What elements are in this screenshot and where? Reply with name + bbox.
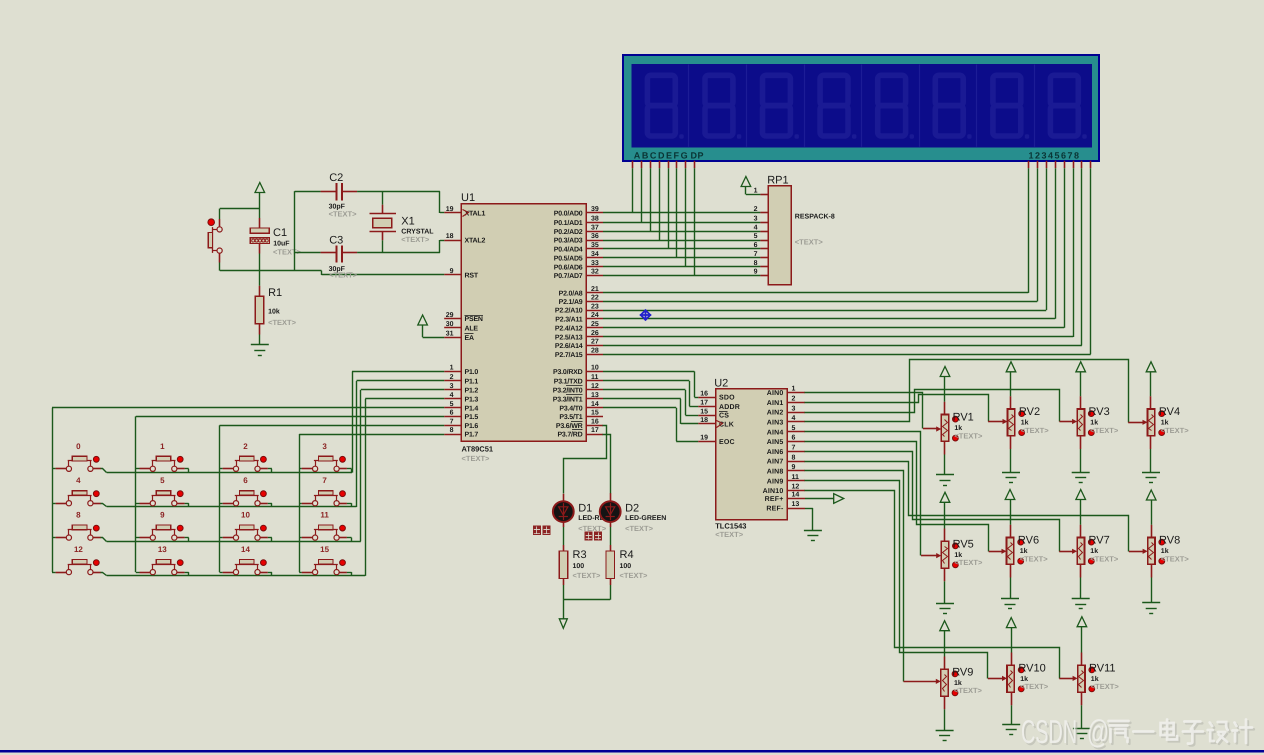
svg-text:8: 8 <box>450 427 454 434</box>
svg-text:<TEXT>: <TEXT> <box>1090 426 1119 435</box>
svg-text:5: 5 <box>792 425 796 432</box>
svg-text:<TEXT>: <TEXT> <box>573 571 602 580</box>
svg-text:<TEXT>: <TEXT> <box>462 454 491 463</box>
svg-text:6: 6 <box>450 410 454 417</box>
svg-text:14: 14 <box>792 492 800 499</box>
svg-text:9: 9 <box>792 464 796 471</box>
svg-text:<TEXT>: <TEXT> <box>715 530 744 539</box>
svg-text:24: 24 <box>591 312 599 319</box>
svg-text:P3.7/RD: P3.7/RD <box>557 431 582 439</box>
svg-text:17: 17 <box>591 427 599 434</box>
svg-text:P1.7: P1.7 <box>465 432 479 439</box>
svg-text:AIN2: AIN2 <box>767 410 784 417</box>
svg-text:C1: C1 <box>273 227 287 239</box>
svg-text:13: 13 <box>792 501 800 508</box>
svg-text:SDO: SDO <box>719 395 735 402</box>
svg-text:P3.3/INT1: P3.3/INT1 <box>553 396 583 404</box>
svg-text:16: 16 <box>591 419 599 426</box>
svg-text:26: 26 <box>591 330 599 337</box>
svg-text:RV2: RV2 <box>1019 406 1040 418</box>
svg-text:RV5: RV5 <box>953 539 974 551</box>
svg-text:AT89C51: AT89C51 <box>462 445 494 454</box>
svg-text:C2: C2 <box>329 172 343 184</box>
svg-text:P0.2/AD2: P0.2/AD2 <box>554 228 583 236</box>
svg-text:12: 12 <box>74 545 83 554</box>
svg-text:4: 4 <box>450 392 454 399</box>
svg-text:P0.6/AD6: P0.6/AD6 <box>554 263 583 271</box>
svg-text:31: 31 <box>446 330 454 337</box>
svg-text:13: 13 <box>591 392 599 399</box>
svg-text:7: 7 <box>322 476 327 485</box>
svg-text:AIN3: AIN3 <box>767 420 784 427</box>
svg-text:AIN10: AIN10 <box>763 488 784 495</box>
svg-text:8: 8 <box>792 454 796 461</box>
svg-text:EA: EA <box>465 335 474 342</box>
svg-text:3: 3 <box>792 405 796 412</box>
svg-text:P2.5/A13: P2.5/A13 <box>555 334 583 342</box>
svg-text:1: 1 <box>754 188 758 195</box>
svg-text:RESPACK-8: RESPACK-8 <box>795 213 835 220</box>
svg-text:36: 36 <box>591 233 599 240</box>
svg-text:<TEXT>: <TEXT> <box>625 524 654 533</box>
svg-text:R3: R3 <box>573 549 587 561</box>
svg-text:25: 25 <box>591 321 599 328</box>
svg-text:6: 6 <box>243 476 248 485</box>
svg-text:AIN8: AIN8 <box>767 469 784 476</box>
svg-text:9: 9 <box>754 269 758 276</box>
svg-text:P0.7/AD7: P0.7/AD7 <box>554 272 583 280</box>
svg-text:<TEXT>: <TEXT> <box>795 238 824 247</box>
svg-text:6: 6 <box>754 242 758 249</box>
svg-text:<TEXT>: <TEXT> <box>329 210 358 219</box>
svg-text:15: 15 <box>320 545 329 554</box>
svg-text:AIN1: AIN1 <box>767 400 784 407</box>
svg-text:23: 23 <box>591 303 599 310</box>
svg-text:7: 7 <box>754 251 758 258</box>
svg-text:P3.1/TXD: P3.1/TXD <box>554 378 583 386</box>
svg-text:2: 2 <box>792 396 796 403</box>
svg-text:AIN9: AIN9 <box>767 478 784 485</box>
svg-text:100: 100 <box>620 563 632 570</box>
svg-text:U1: U1 <box>461 192 475 204</box>
svg-text:ALE: ALE <box>465 325 479 332</box>
svg-text:ABCDEFG: ABCDEFG <box>634 151 689 161</box>
svg-text:33: 33 <box>591 260 599 267</box>
svg-text:D2: D2 <box>625 502 639 514</box>
svg-text:P1.1: P1.1 <box>465 379 479 386</box>
svg-text:RV6: RV6 <box>1018 535 1039 547</box>
svg-text:<TEXT>: <TEXT> <box>1020 554 1049 563</box>
svg-text:P1.2: P1.2 <box>465 388 479 395</box>
svg-text:P3.4/T0: P3.4/T0 <box>559 404 582 412</box>
svg-text:10: 10 <box>241 511 250 520</box>
svg-text:27: 27 <box>591 339 599 346</box>
svg-text:P1.5: P1.5 <box>465 414 479 421</box>
svg-text:<TEXT>: <TEXT> <box>401 235 430 244</box>
svg-text:<TEXT>: <TEXT> <box>1020 682 1049 691</box>
svg-text:22: 22 <box>591 295 599 302</box>
svg-text:P2.0/A8: P2.0/A8 <box>559 290 583 298</box>
svg-text:<TEXT>: <TEXT> <box>329 271 358 280</box>
svg-text:11: 11 <box>320 511 329 520</box>
svg-text:2: 2 <box>450 374 454 381</box>
svg-text:ADDR: ADDR <box>719 404 740 411</box>
svg-text:6: 6 <box>792 435 796 442</box>
svg-text:REF-: REF- <box>766 506 784 513</box>
svg-text:R1: R1 <box>268 287 282 299</box>
svg-text:<TEXT>: <TEXT> <box>954 431 983 440</box>
svg-text:AIN7: AIN7 <box>767 459 784 466</box>
svg-text:11: 11 <box>792 474 800 481</box>
svg-text:P0.1/AD1: P0.1/AD1 <box>554 219 583 227</box>
svg-text:P2.3/A11: P2.3/A11 <box>555 315 583 323</box>
svg-text:5: 5 <box>450 401 454 408</box>
svg-text:P0.0/AD0: P0.0/AD0 <box>554 210 583 218</box>
svg-text:RV3: RV3 <box>1089 406 1110 418</box>
svg-text:AIN5: AIN5 <box>767 439 784 446</box>
svg-text:<TEXT>: <TEXT> <box>1161 426 1190 435</box>
svg-text:P3.5/T1: P3.5/T1 <box>559 413 582 421</box>
svg-text:37: 37 <box>591 225 599 232</box>
svg-text:32: 32 <box>591 269 599 276</box>
svg-text:1: 1 <box>160 442 165 451</box>
svg-text:2: 2 <box>754 206 758 213</box>
svg-text:P1.3: P1.3 <box>465 397 479 404</box>
svg-text:0: 0 <box>76 442 81 451</box>
svg-text:<TEXT>: <TEXT> <box>1090 554 1119 563</box>
svg-text:38: 38 <box>591 215 599 222</box>
svg-text:REF+: REF+ <box>765 496 784 503</box>
svg-text:21: 21 <box>591 286 599 293</box>
svg-text:D1: D1 <box>578 502 592 514</box>
svg-text:P2.4/A12: P2.4/A12 <box>555 324 583 332</box>
svg-text:RV9: RV9 <box>952 667 973 679</box>
svg-text:<TEXT>: <TEXT> <box>620 571 649 580</box>
svg-text:P1.0: P1.0 <box>465 369 479 376</box>
svg-text:4: 4 <box>76 476 81 485</box>
svg-text:29: 29 <box>446 312 454 319</box>
svg-text:7: 7 <box>792 445 796 452</box>
svg-text:100: 100 <box>573 563 585 570</box>
svg-text:P0.4/AD4: P0.4/AD4 <box>554 246 583 254</box>
svg-text:10k: 10k <box>268 308 280 316</box>
svg-text:P0.3/AD3: P0.3/AD3 <box>554 237 583 245</box>
svg-text:PSEN: PSEN <box>465 316 483 323</box>
svg-text:LED-GREEN: LED-GREEN <box>625 515 666 522</box>
svg-text:AIN4: AIN4 <box>767 429 784 436</box>
svg-text:P2.6/A14: P2.6/A14 <box>555 342 583 350</box>
svg-text:RV4: RV4 <box>1159 406 1180 418</box>
svg-text:X1: X1 <box>401 216 414 228</box>
svg-text:18: 18 <box>446 233 454 240</box>
svg-text:<TEXT>: <TEXT> <box>1091 682 1120 691</box>
svg-text:8: 8 <box>76 511 81 520</box>
svg-text:10: 10 <box>591 365 599 372</box>
svg-text:<TEXT>: <TEXT> <box>1161 554 1190 563</box>
svg-text:CS: CS <box>719 413 729 420</box>
svg-text:11: 11 <box>591 374 599 381</box>
svg-text:@: @ <box>1087 713 1109 750</box>
svg-text:P2.7/A15: P2.7/A15 <box>555 351 583 359</box>
svg-text:19: 19 <box>700 434 708 441</box>
svg-text:14: 14 <box>241 545 250 554</box>
svg-text:39: 39 <box>591 206 599 213</box>
svg-text:35: 35 <box>591 242 599 249</box>
svg-text:EOC: EOC <box>719 439 735 446</box>
svg-text:P3.2/INT0: P3.2/INT0 <box>553 387 583 395</box>
svg-text:AIN6: AIN6 <box>767 449 784 456</box>
svg-text:AIN0: AIN0 <box>767 390 784 397</box>
svg-text:34: 34 <box>591 251 599 258</box>
svg-text:12345678: 12345678 <box>1029 151 1081 161</box>
svg-text:RV8: RV8 <box>1159 535 1180 547</box>
svg-text:<TEXT>: <TEXT> <box>268 318 297 327</box>
svg-text:13: 13 <box>158 545 167 554</box>
svg-text:9: 9 <box>160 511 165 520</box>
svg-text:RV7: RV7 <box>1089 535 1110 547</box>
svg-text:CSDN: CSDN <box>1021 713 1077 750</box>
svg-text:P2.1/A9: P2.1/A9 <box>559 298 583 306</box>
svg-text:P1.4: P1.4 <box>465 405 479 412</box>
svg-text:12: 12 <box>591 383 599 390</box>
svg-text:C3: C3 <box>329 235 343 247</box>
svg-text:4: 4 <box>754 225 758 232</box>
svg-text:RV10: RV10 <box>1018 663 1045 675</box>
svg-text:18: 18 <box>700 417 708 424</box>
svg-text:U2: U2 <box>714 378 728 390</box>
svg-text:5: 5 <box>160 476 165 485</box>
svg-text:<TEXT>: <TEXT> <box>954 686 983 695</box>
svg-text:5: 5 <box>754 233 758 240</box>
svg-text:RST: RST <box>465 273 479 280</box>
svg-text:19: 19 <box>446 206 454 213</box>
svg-text:3: 3 <box>754 215 758 222</box>
svg-text:XTAL2: XTAL2 <box>465 238 486 245</box>
svg-text:P3.0/RXD: P3.0/RXD <box>553 368 583 376</box>
svg-text:3: 3 <box>450 383 454 390</box>
svg-text:15: 15 <box>591 410 599 417</box>
svg-text:1: 1 <box>450 365 454 372</box>
svg-text:15: 15 <box>700 408 708 415</box>
svg-text:RV11: RV11 <box>1089 663 1116 675</box>
svg-text:8: 8 <box>754 260 758 267</box>
svg-text:P1.6: P1.6 <box>465 423 479 430</box>
svg-text:P3.6/WR: P3.6/WR <box>556 422 583 430</box>
svg-text:3: 3 <box>322 442 327 451</box>
svg-text:1: 1 <box>792 386 796 393</box>
svg-text:28: 28 <box>591 347 599 354</box>
svg-text:2: 2 <box>243 442 248 451</box>
svg-text:16: 16 <box>700 390 708 397</box>
svg-text:7: 7 <box>450 419 454 426</box>
svg-text:30: 30 <box>446 321 454 328</box>
svg-text:9: 9 <box>450 268 454 275</box>
svg-text:<TEXT>: <TEXT> <box>954 558 983 567</box>
svg-text:DP: DP <box>691 151 705 161</box>
svg-text:P2.2/A10: P2.2/A10 <box>555 307 583 315</box>
svg-text:P0.5/AD5: P0.5/AD5 <box>554 255 583 263</box>
svg-text:4: 4 <box>792 415 796 422</box>
svg-text:RP1: RP1 <box>767 175 788 187</box>
svg-text:RV1: RV1 <box>953 412 974 424</box>
svg-text:10uF: 10uF <box>273 240 290 247</box>
svg-text:R4: R4 <box>620 549 634 561</box>
svg-text:17: 17 <box>700 400 708 407</box>
svg-text:<TEXT>: <TEXT> <box>1021 426 1050 435</box>
svg-text:14: 14 <box>591 401 599 408</box>
svg-text:12: 12 <box>792 484 800 491</box>
